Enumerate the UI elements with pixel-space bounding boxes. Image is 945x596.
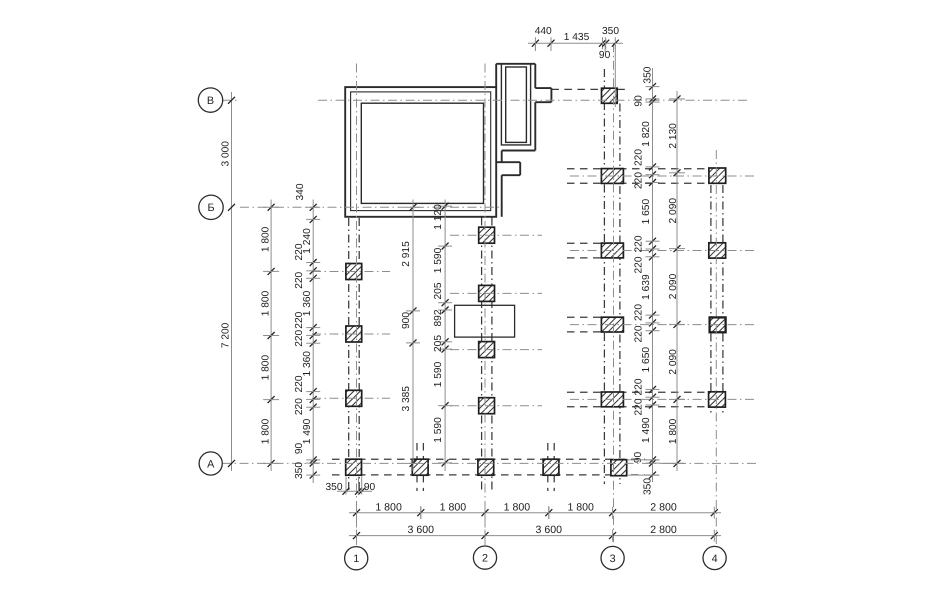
dimension chain axis letters: [231, 92, 233, 471]
svg-text:1 650: 1 650: [641, 199, 652, 225]
svg-text:7 200: 7 200: [220, 322, 231, 348]
axis line 1 vertical: [356, 64, 358, 547]
svg-text:2 915: 2 915: [401, 241, 412, 267]
pile row A x=420: [412, 459, 428, 475]
pile column3 row4: [601, 392, 623, 407]
right grid row axes: [570, 175, 754, 177]
pile strip stubs at pile x=420 row A: [416, 443, 418, 459]
svg-text:90: 90: [599, 50, 611, 61]
axis line 3 vertical: [613, 43, 615, 546]
svg-text:1 650: 1 650: [641, 347, 652, 373]
pile column1 row2: [346, 326, 362, 342]
pile row A x=619: [611, 460, 627, 476]
svg-text:1 590: 1 590: [433, 361, 444, 387]
pile column2 row4: [479, 398, 495, 414]
svg-text:220: 220: [634, 256, 645, 273]
pile column4 row2: [709, 243, 726, 258]
svg-text:1 490: 1 490: [641, 417, 652, 443]
svg-text:1 800: 1 800: [504, 502, 531, 514]
top dim extension gray: [604, 45, 606, 52]
svg-text:1 800: 1 800: [260, 355, 271, 381]
svg-text:1 800: 1 800: [260, 418, 271, 444]
svg-text:2 090: 2 090: [668, 273, 679, 299]
pile strip dashed pair column 2: [481, 218, 483, 492]
svg-text:1 639: 1 639: [641, 274, 652, 300]
svg-text:1 800: 1 800: [440, 502, 467, 514]
svg-text:900: 900: [401, 312, 412, 329]
pile column2 row A: [478, 459, 494, 475]
svg-text:340: 340: [295, 183, 306, 200]
svg-text:220: 220: [634, 398, 645, 415]
svg-text:1 490: 1 490: [302, 418, 313, 444]
svg-text:892: 892: [433, 309, 444, 326]
shaft middle wall U: [501, 64, 530, 145]
axis line V horizontal: [223, 99, 238, 101]
pile column2 row2: [479, 285, 495, 301]
right grid row 4 dashed pair: [567, 391, 709, 393]
pile column1 row1: [346, 264, 362, 280]
svg-text:350: 350: [602, 26, 619, 37]
svg-text:90: 90: [633, 95, 644, 107]
svg-text:220: 220: [294, 271, 305, 288]
svg-text:1 800: 1 800: [567, 502, 594, 514]
axis circle 2: [473, 546, 496, 569]
top dimension chain 440-1435-350-90: [528, 42, 623, 44]
pile strip dashed pair column 1: [348, 218, 350, 491]
pile strip dashed pair column 3: [603, 69, 605, 484]
axis circle V: [198, 88, 222, 112]
svg-text:3 385: 3 385: [401, 386, 412, 412]
svg-text:220: 220: [294, 243, 305, 260]
svg-text:220: 220: [634, 172, 645, 189]
svg-text:В: В: [207, 95, 214, 107]
svg-text:1 800: 1 800: [375, 502, 402, 514]
pile row A x=551: [543, 459, 559, 475]
svg-text:1 360: 1 360: [302, 351, 313, 377]
axis circle 3: [601, 546, 624, 569]
pile strip dashed pair column 4: [710, 169, 712, 416]
svg-text:3 600: 3 600: [536, 524, 563, 536]
svg-text:220: 220: [634, 325, 645, 342]
bottom dimension chain 3600s: [349, 535, 721, 537]
svg-text:220: 220: [294, 375, 305, 392]
svg-text:1: 1: [353, 553, 359, 565]
svg-text:3 600: 3 600: [408, 524, 435, 536]
svg-text:220: 220: [634, 378, 645, 395]
axis line A horizontal: [222, 462, 757, 464]
pile column3 row2: [601, 243, 623, 258]
pile column2 row1: [479, 227, 495, 243]
svg-text:220: 220: [294, 398, 305, 415]
svg-text:1 800: 1 800: [668, 418, 679, 444]
pile column4 row4: [709, 392, 726, 407]
dimension chain 2130-2090 right: [676, 91, 678, 471]
row A dashed pair: [332, 458, 645, 460]
svg-text:350: 350: [294, 462, 305, 479]
dimension chain detail left: [312, 200, 314, 484]
right grid row 3 dashed stubs: [567, 316, 602, 318]
pile column1 row3: [346, 390, 362, 406]
room inner wall face: [361, 103, 483, 203]
axis circle B: [199, 195, 223, 219]
pile strip stubs at pile x=551 row A: [547, 443, 549, 459]
axis line 4 vertical: [715, 150, 717, 547]
pile column2 row3: [479, 342, 495, 358]
axis line 2 vertical: [484, 64, 486, 547]
svg-text:1 820: 1 820: [641, 121, 652, 147]
svg-text:220: 220: [634, 149, 645, 166]
pile column3 row3: [601, 317, 623, 332]
dimension chain 2915-900-3385: [412, 200, 414, 472]
axis circle A: [199, 452, 222, 475]
svg-text:2 800: 2 800: [650, 524, 677, 536]
shaft inner wall rect: [506, 67, 527, 142]
svg-text:440: 440: [535, 26, 552, 37]
svg-text:90: 90: [364, 482, 376, 493]
right grid row 2 dashed stubs: [567, 242, 602, 244]
svg-text:350: 350: [642, 478, 653, 495]
svg-text:4: 4: [712, 553, 718, 565]
pile column4 row1: [709, 168, 726, 183]
svg-text:3: 3: [610, 553, 616, 565]
pile top near shaft: [602, 88, 618, 103]
svg-text:350: 350: [642, 66, 653, 83]
svg-text:220: 220: [634, 235, 645, 252]
svg-text:90: 90: [294, 443, 305, 455]
svg-text:2 130: 2 130: [668, 123, 679, 149]
bottom right witness lines: [627, 459, 659, 461]
pile column4 row3: [710, 317, 726, 332]
svg-text:90: 90: [633, 452, 644, 464]
right grid row 1 dashed pair: [567, 168, 709, 170]
svg-text:2 090: 2 090: [668, 349, 679, 375]
svg-text:220: 220: [294, 329, 305, 346]
svg-text:1 800: 1 800: [260, 226, 271, 252]
svg-text:1 120: 1 120: [433, 204, 444, 230]
svg-text:3 000: 3 000: [220, 141, 231, 167]
svg-text:1 590: 1 590: [433, 417, 444, 443]
bottom dimension chain 1800s: [349, 512, 721, 514]
bottom left mini chain 350-90: [337, 490, 372, 492]
svg-text:205: 205: [433, 282, 444, 299]
room outer wall: [345, 87, 496, 217]
room foundation ledge line: [351, 92, 491, 211]
axis line B horizontal: [240, 206, 500, 208]
svg-text:2 800: 2 800: [650, 502, 677, 514]
dimension chain 1120-1590 middle: [444, 200, 446, 472]
dimension chain detail right: [652, 68, 654, 482]
axis circle 1: [345, 547, 368, 570]
svg-text:205: 205: [433, 335, 444, 352]
pile column1 row A: [346, 459, 362, 475]
column2 row axes: [450, 234, 542, 236]
svg-text:1 435: 1 435: [564, 32, 590, 43]
svg-text:А: А: [207, 458, 215, 470]
svg-text:Б: Б: [207, 202, 214, 214]
svg-text:2: 2: [482, 552, 488, 564]
svg-text:2 090: 2 090: [668, 198, 679, 224]
svg-text:220: 220: [294, 311, 305, 328]
svg-text:1 590: 1 590: [433, 247, 444, 273]
left column1 row axes: [312, 271, 390, 273]
svg-text:1 800: 1 800: [260, 290, 271, 316]
svg-text:350: 350: [326, 482, 343, 493]
svg-text:220: 220: [634, 304, 645, 321]
row V dashed tie line: [551, 88, 601, 90]
dimension chain 1800 left: [270, 200, 272, 472]
equipment rectangle: [455, 305, 515, 337]
pile column3 row1: [601, 169, 623, 184]
shaft outer contour: [496, 63, 535, 65]
axis circle 4: [703, 546, 726, 569]
